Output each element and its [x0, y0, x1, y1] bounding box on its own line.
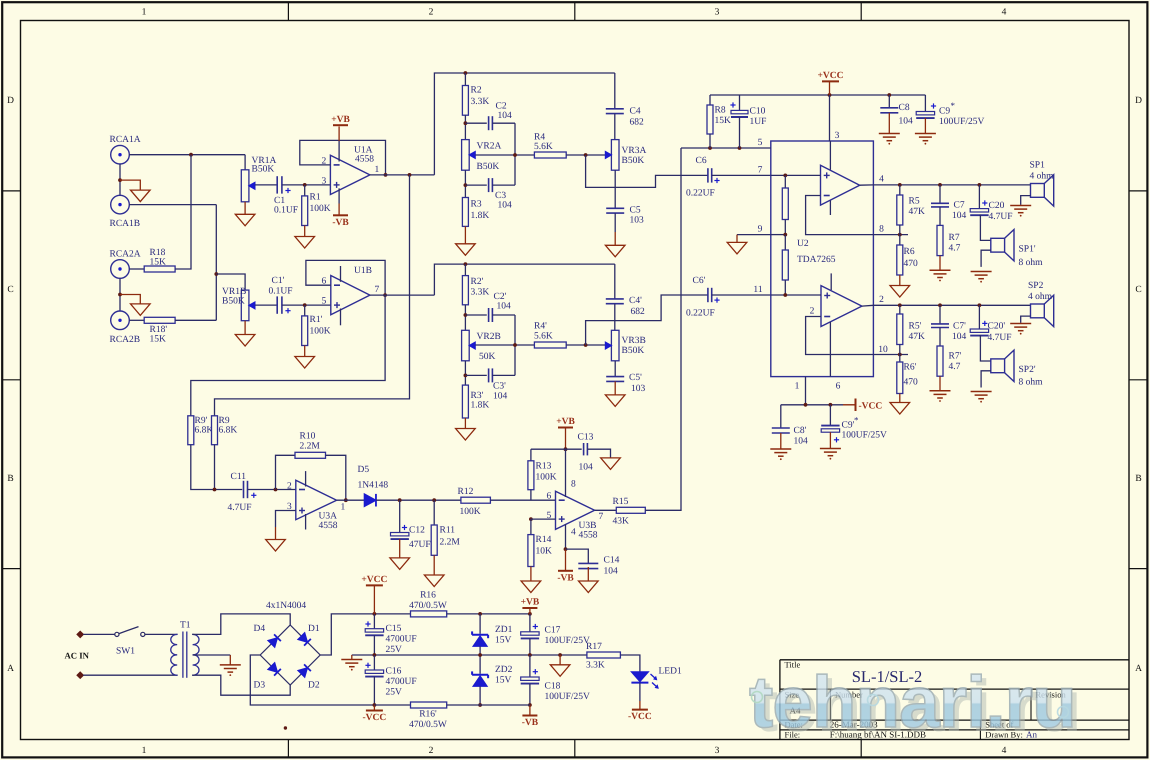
svg-text:6: 6 [547, 492, 552, 502]
resistor R16 470/0.5W [411, 611, 447, 617]
svg-text:D2: D2 [308, 681, 320, 691]
capacitor C6' 0.22UF [707, 288, 709, 302]
svg-text:R11: R11 [440, 526, 456, 536]
U2 amp A power stub from pin3 [829, 141, 831, 170]
svg-text:R9': R9' [195, 416, 208, 426]
U2 amp A feedback to pin8 [806, 196, 874, 235]
svg-text:ZD1: ZD1 [495, 625, 513, 635]
ground below C12 [399, 539, 401, 558]
svg-text:3: 3 [835, 131, 840, 141]
svg-text:R2: R2 [471, 86, 482, 96]
power +VB at C17 [529, 608, 531, 614]
wire RCA1A to VR1A [129, 154, 245, 156]
svg-text:5.6K: 5.6K [534, 332, 553, 342]
resistor R3 1.8K [462, 198, 468, 227]
U2 internal amp B triangle [821, 286, 862, 327]
node junction C18 bottom [528, 703, 532, 707]
svg-text:4558: 4558 [319, 521, 338, 531]
svg-text:R5': R5' [909, 322, 922, 332]
svg-text:R6: R6 [904, 247, 915, 257]
svg-text:C9: C9 [939, 107, 950, 117]
svg-text:6.8K: 6.8K [219, 426, 238, 436]
svg-text:103: 103 [630, 216, 645, 226]
U2 internal resistor upper [784, 175, 786, 188]
svg-text:104: 104 [498, 111, 513, 121]
svg-text:C6: C6 [696, 156, 707, 166]
svg-text:R13: R13 [536, 462, 552, 472]
capacitor C3' 104 [465, 374, 486, 376]
node junction R2' top [464, 262, 468, 266]
node junction -VB / C14 [564, 547, 568, 551]
svg-text:47UF: 47UF [409, 540, 431, 550]
resistor R5' 47K [899, 305, 901, 314]
svg-text:15K: 15K [150, 258, 167, 268]
capacitor C1' 0.1UF [276, 296, 278, 313]
svg-text:104: 104 [952, 332, 967, 342]
wire R9' bottom to sum node [191, 445, 242, 490]
svg-text:U3A: U3A [319, 512, 338, 522]
stray junction dot [284, 726, 287, 729]
U1B power stubs [340, 266, 342, 282]
resistor R11 2.2M [433, 500, 435, 525]
svg-text:C1': C1' [272, 276, 285, 286]
capacitor C8' 104 [780, 405, 782, 428]
svg-text:-VCC: -VCC [363, 713, 387, 723]
svg-text:+VB: +VB [521, 598, 540, 608]
connector RCA1B [111, 195, 130, 214]
wire RCA2B to R18' [129, 319, 144, 321]
ground below VR1B [244, 321, 246, 335]
node junction C10 bottom [738, 146, 742, 150]
node junction VR3B wiper tap [584, 343, 588, 347]
svg-text:5.6K: 5.6K [534, 142, 553, 152]
diode D1 [298, 633, 311, 646]
resistor R7' 4.7 [939, 328, 941, 347]
wire C6' to U2 pin11 [712, 294, 771, 296]
svg-text:B50K: B50K [222, 297, 245, 307]
resistor R18' [144, 317, 175, 323]
resistor R9 6.8K [212, 416, 218, 445]
ground below R1' [304, 346, 306, 357]
svg-text:SW1: SW1 [116, 647, 135, 657]
capacitor C11 4.7UF [243, 481, 245, 498]
node junction RCA1 shield [118, 178, 122, 182]
svg-text:5: 5 [322, 297, 327, 307]
svg-text:6: 6 [836, 382, 841, 392]
wire R16 to +VB node [447, 613, 530, 615]
node junction C8 top [887, 93, 891, 97]
switch SW1 [115, 632, 119, 636]
wire D5 to R12 [376, 499, 461, 501]
svg-text:C3': C3' [493, 381, 506, 391]
capacitor C6 0.22UF [707, 168, 709, 182]
svg-text:-VCC: -VCC [859, 401, 883, 411]
svg-text:11: 11 [753, 285, 762, 295]
wire R18 to RCA1A node [175, 155, 191, 269]
potentiometer VR3A B50K [611, 140, 619, 171]
wire U3A output to D5 [337, 499, 365, 501]
svg-text:R12: R12 [458, 487, 474, 497]
ground below C5 [614, 213, 616, 232]
svg-text:2: 2 [429, 746, 434, 756]
capacitor C15 4700UF electrolytic [373, 614, 375, 629]
wire C20' to SP2' [979, 336, 990, 361]
svg-text:AC IN: AC IN [65, 651, 90, 661]
wire pin5 to R14 [531, 518, 556, 520]
svg-text:C16: C16 [386, 667, 402, 677]
svg-text:15K: 15K [715, 116, 732, 126]
diode D4 [268, 634, 281, 647]
svg-text:4.7UF: 4.7UF [228, 503, 252, 513]
potentiometer VR3B B50K [611, 330, 619, 361]
ground below R14 [530, 567, 532, 582]
svg-text:25V: 25V [386, 688, 403, 698]
U2 internal amp A triangle [821, 165, 860, 205]
node junction R11 top [432, 498, 436, 502]
svg-text:5: 5 [758, 138, 763, 148]
wire U1B output riser to ch2 top rail [434, 264, 614, 295]
svg-text:50K: 50K [479, 352, 496, 362]
svg-text:100UF/25V: 100UF/25V [939, 117, 985, 127]
ground below R6 [899, 275, 901, 286]
svg-text:R1: R1 [310, 193, 321, 203]
ground below R3 [464, 226, 466, 243]
wire SW1 to T1 primary [145, 633, 178, 635]
svg-text:SP1: SP1 [1030, 161, 1046, 171]
svg-text:4: 4 [571, 528, 576, 538]
svg-text:8: 8 [571, 480, 576, 490]
svg-text:C3: C3 [495, 191, 506, 201]
svg-text:R15: R15 [613, 497, 629, 507]
svg-text:4558: 4558 [579, 531, 598, 541]
svg-text:R17: R17 [586, 642, 602, 652]
ground below R7 [939, 256, 941, 271]
svg-text:4: 4 [879, 175, 884, 185]
svg-text:470/0.5W: 470/0.5W [409, 720, 447, 730]
wire R15 to U2 pin5 riser [645, 148, 681, 510]
node junction C20' top [978, 303, 982, 307]
svg-text:C: C [1135, 285, 1141, 295]
resistor R1' 100K [304, 305, 306, 316]
svg-text:D1: D1 [308, 624, 320, 634]
ground below VR1A [244, 202, 246, 215]
ground at mid rail [351, 655, 353, 660]
node junction pin11 / divider [783, 293, 787, 297]
svg-text:104: 104 [604, 567, 619, 577]
svg-text:R16: R16 [420, 591, 436, 601]
wire ch2 band output to C6' [586, 295, 708, 345]
node junction U1A output feedback [384, 173, 388, 177]
resistor R6' 470 [899, 355, 901, 363]
wire VR1A wiper to C1 [255, 184, 277, 186]
capacitor C13 104 [566, 448, 582, 450]
wire RCA2A to R18 [129, 268, 144, 270]
capacitor C10 1UF electrolytic [739, 95, 741, 110]
resistor R15 43K [595, 509, 617, 511]
wire C1' to U1B pin5 [282, 304, 331, 306]
bridge rectifier diamond [260, 625, 320, 685]
ground triangle at mid rail [559, 655, 561, 665]
wire R17 to LED1 [620, 655, 640, 672]
svg-text:100UF/25V: 100UF/25V [545, 692, 591, 702]
resistor R9' 6.8K [188, 416, 194, 445]
svg-text:10: 10 [878, 345, 888, 355]
power -VCC at C16 [373, 705, 375, 711]
svg-text:RCA2B: RCA2B [110, 335, 141, 345]
node junction C3 row [464, 170, 466, 197]
wire RCA1A to RCA1B shield [119, 164, 121, 196]
svg-text:B: B [1135, 474, 1141, 484]
capacitor C20' 4.7UF electrolytic [978, 305, 980, 329]
svg-text:ZD2: ZD2 [495, 665, 513, 675]
svg-text:1: 1 [142, 8, 147, 18]
svg-text:3.3K: 3.3K [586, 661, 605, 671]
svg-text:+VB: +VB [331, 115, 350, 125]
node junction ZD1 top [478, 612, 482, 616]
ground RCA1 shield [120, 180, 140, 190]
svg-text:SP2: SP2 [1028, 281, 1044, 291]
svg-text:A: A [1135, 664, 1142, 674]
svg-text:C5: C5 [630, 206, 641, 216]
potentiometer VR2B 50K [462, 330, 470, 361]
capacitor C2 104 [465, 122, 486, 124]
node junction C17/C18 mid [528, 653, 532, 657]
svg-text:D: D [1135, 96, 1142, 106]
op-amp U1B [331, 276, 370, 315]
wire T1 secondary bottom to bridge [192, 675, 290, 695]
node junction ZD mid [478, 653, 482, 657]
op-amp U3B 4558 [556, 491, 595, 529]
capacitor C5' 103 [614, 361, 616, 377]
connector RCA2A [111, 260, 130, 279]
svg-text:C10: C10 [750, 107, 766, 117]
svg-text:10K: 10K [536, 547, 553, 557]
svg-text:4 ohm: 4 ohm [1028, 292, 1053, 302]
svg-text:1.8K: 1.8K [471, 401, 490, 411]
op-amp U3A 4558 [296, 480, 337, 519]
svg-text:-VCC: -VCC [628, 712, 652, 722]
power +VB at U1A [338, 141, 340, 162]
node junction C7' top [938, 303, 942, 307]
svg-text:1: 1 [795, 382, 800, 392]
wire -VCC rail [781, 404, 843, 406]
svg-text:4700UF: 4700UF [386, 677, 417, 687]
ground below R1 [304, 226, 306, 237]
power -VB mid [565, 549, 567, 571]
svg-text:R18: R18 [150, 248, 166, 258]
svg-text:4: 4 [1002, 8, 1007, 18]
svg-text:C18: C18 [545, 682, 561, 692]
wire bridge + to +VCC rail [320, 614, 367, 655]
wire +VB to U3B pin8 stub [565, 449, 567, 487]
svg-text:2.2M: 2.2M [300, 442, 321, 452]
svg-text:103: 103 [631, 384, 646, 394]
svg-text:*: * [854, 415, 859, 425]
svg-text:R16': R16' [419, 710, 437, 720]
svg-text:1: 1 [375, 165, 380, 175]
potentiometer VR2A B50K [462, 140, 470, 171]
node junction pin7 / divider [783, 174, 787, 178]
ground below C14 [587, 567, 589, 581]
zener ZD2 15V [479, 655, 481, 674]
wire pin9 input [771, 234, 786, 236]
svg-text:D3: D3 [254, 681, 266, 691]
svg-text:R3: R3 [471, 200, 482, 210]
node junction mid ground 2 [558, 653, 562, 657]
svg-text:tehnari.ru: tehnari.ru [749, 662, 1076, 743]
svg-text:100K: 100K [310, 204, 331, 214]
capacitor C9' 100UF/25V [829, 405, 831, 426]
wire ch1 sum tap [215, 175, 410, 416]
svg-text:1.8K: 1.8K [471, 211, 490, 221]
svg-text:-VB: -VB [332, 218, 349, 228]
svg-text:-VB: -VB [557, 573, 574, 583]
node junction R5/R6 [898, 233, 902, 237]
svg-text:104: 104 [794, 437, 809, 447]
node junction R5 top [898, 183, 902, 187]
U3B power stubs [565, 487, 567, 497]
capacitor C17 100UF/25V [529, 614, 531, 632]
ground at SP1' [981, 250, 991, 267]
svg-text:C8: C8 [899, 103, 910, 113]
resistor R13 100K [530, 449, 532, 461]
svg-text:C6': C6' [693, 276, 706, 286]
ground below R3' [464, 418, 466, 429]
resistor R2' 3.3K [464, 264, 466, 276]
svg-text:C4: C4 [630, 107, 641, 117]
connector RCA1A [111, 145, 130, 164]
ground at SP2' [981, 371, 991, 388]
svg-text:A: A [7, 664, 14, 674]
speaker SP2' 8 ohm [991, 359, 1005, 373]
ground below C13 [601, 458, 621, 470]
node junction RCA1A wire / R18 riser [189, 153, 193, 157]
svg-text:15V: 15V [495, 675, 512, 685]
node junction +VB / R13 / C13 [564, 447, 568, 451]
node junction U1A output to summer [408, 173, 412, 177]
node junction R5' top [898, 303, 902, 307]
node junction U3A inverting input [274, 488, 278, 492]
svg-text:VR1B: VR1B [222, 287, 246, 297]
capacitor C9 100UF/25V [924, 95, 926, 112]
svg-text:0.22UF: 0.22UF [686, 188, 715, 198]
capacitor C5 103 [614, 170, 616, 208]
svg-text:R8: R8 [715, 106, 726, 116]
power -VCC right of U2 [843, 404, 856, 406]
svg-text:-VB: -VB [522, 718, 539, 728]
LED LED1 [631, 672, 648, 682]
svg-text:682: 682 [630, 118, 645, 128]
wire ch2 sum tap [191, 295, 385, 416]
svg-text:4 ohm: 4 ohm [1030, 172, 1055, 182]
svg-text:4.7UF: 4.7UF [989, 212, 1013, 222]
svg-text:VR2B: VR2B [477, 332, 501, 342]
node junction R1 top [303, 183, 307, 187]
power +VB mid [558, 427, 573, 429]
node junction C12 top [398, 498, 402, 502]
svg-text:2.2M: 2.2M [440, 538, 461, 548]
wire R4 to VR3A wiper [566, 154, 606, 156]
wire +VCC rail [367, 613, 411, 615]
wire C6 to U2 pin7 [712, 174, 771, 176]
svg-text:R4': R4' [534, 322, 547, 332]
svg-text:47K: 47K [909, 207, 926, 217]
svg-text:100K: 100K [536, 473, 557, 483]
wire R4' to VR3B wiper [566, 344, 606, 346]
svg-text:B50K: B50K [622, 156, 645, 166]
wire U1B output [370, 294, 435, 296]
svg-text:47K: 47K [909, 332, 926, 342]
wire R16' to -VB node [447, 704, 530, 706]
svg-text:R4: R4 [534, 133, 545, 143]
power -VCC at LED1 [639, 683, 641, 701]
ground RCA2 shield [120, 295, 140, 304]
wire AC line to SW1 [83, 633, 115, 635]
mid 0V rail [352, 654, 587, 656]
svg-text:43K: 43K [613, 517, 630, 527]
svg-text:3: 3 [715, 746, 720, 756]
svg-text:U1B: U1B [354, 266, 372, 276]
svg-text:104: 104 [579, 463, 594, 473]
svg-text:9: 9 [758, 225, 763, 235]
connector RCA2B [111, 311, 130, 330]
ground below R6' [899, 394, 901, 403]
svg-text:VR2A: VR2A [477, 142, 502, 152]
speaker SP2 4 ohm [1031, 304, 1045, 318]
node junction C7 top [938, 183, 942, 187]
svg-text:D5: D5 [358, 465, 370, 475]
capacitor C20 4.7UF electrolytic [978, 185, 980, 209]
svg-text:VR3B: VR3B [622, 336, 646, 346]
svg-text:C12: C12 [409, 526, 425, 536]
capacitor C7' 104 [939, 305, 941, 324]
svg-text:8 ohm: 8 ohm [1019, 378, 1044, 388]
wire U1A feedback loop pin2 to pin1 [300, 140, 386, 175]
node junction pin6 [829, 403, 833, 407]
capacitor C7 104 [939, 185, 941, 203]
svg-text:0.1UF: 0.1UF [274, 205, 298, 215]
resistor R5 47K [899, 185, 901, 195]
node junction R8 bottom [708, 146, 712, 150]
svg-text:RCA1A: RCA1A [110, 135, 141, 145]
svg-text:25V: 25V [386, 645, 403, 655]
svg-text:R1': R1' [310, 315, 323, 325]
svg-text:B50K: B50K [252, 165, 275, 175]
wire T1 secondary top to bridge [192, 614, 290, 635]
svg-text:4700UF: 4700UF [386, 635, 417, 645]
capacitor C16 4700UF electrolytic [373, 655, 375, 670]
ground at U3A pin3 [276, 511, 296, 528]
border column ticks [287, 2, 289, 21]
node junction C20 top [978, 183, 982, 187]
svg-text:*: * [951, 101, 956, 111]
wire pin1 stub [805, 377, 807, 405]
svg-text:2: 2 [429, 8, 434, 18]
svg-text:SP2': SP2' [1019, 365, 1036, 375]
capacitor C4 682 [614, 73, 616, 109]
wire T1 center tap to ground [193, 654, 231, 656]
U3A power stubs [305, 471, 307, 486]
svg-text:C2: C2 [496, 102, 507, 112]
resistor R7 4.7 [939, 207, 941, 226]
svg-text:3: 3 [322, 176, 327, 186]
wire C20 to SP1' [979, 215, 990, 240]
svg-text:470: 470 [904, 378, 919, 388]
node junction C17 top [528, 612, 532, 616]
svg-text:0.1UF: 0.1UF [269, 287, 293, 297]
svg-text:470: 470 [904, 259, 919, 269]
svg-text:6.8K: 6.8K [195, 426, 214, 436]
